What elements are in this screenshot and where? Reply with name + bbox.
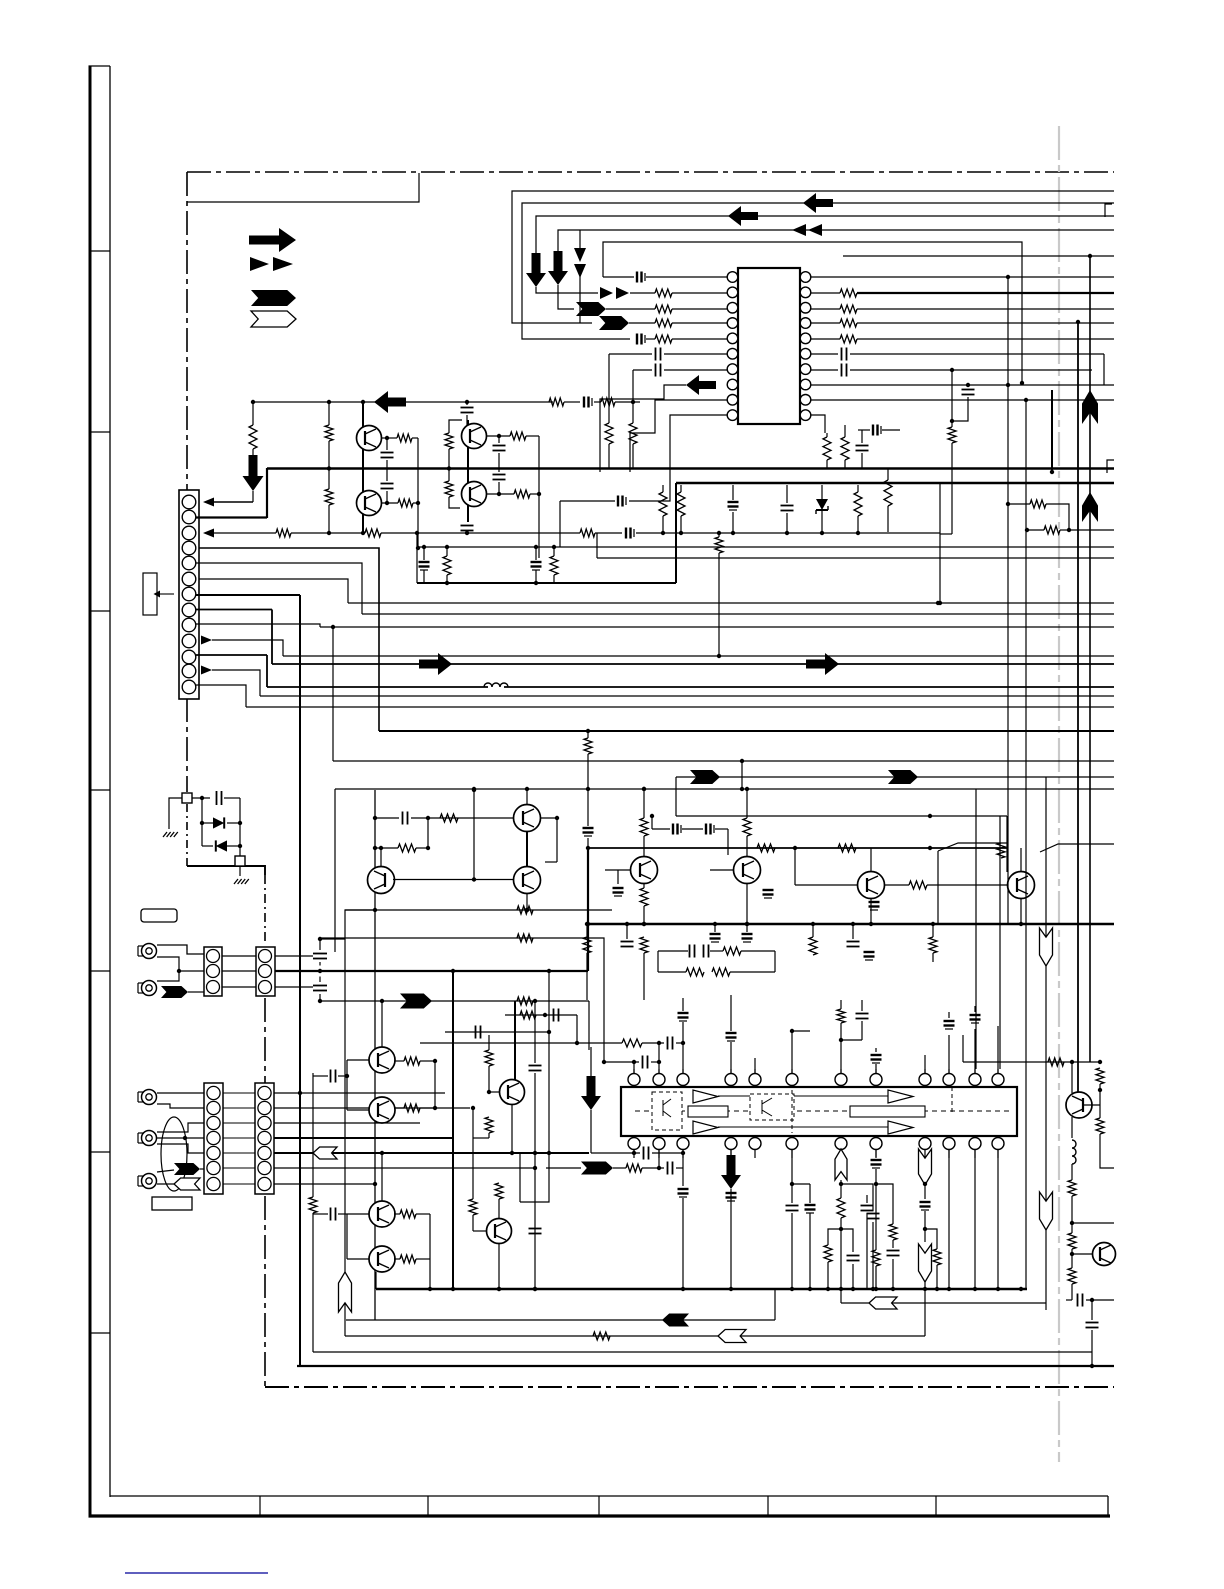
- wire U1 pin8L: [600, 385, 686, 472]
- junction bus dot: [931, 922, 935, 926]
- title strip divider 1: [259, 1496, 261, 1515]
- wire x333 jog: [332, 627, 334, 761]
- resistor R38: [583, 937, 591, 953]
- wire Q8 collector: [643, 789, 645, 818]
- arrow left on L2: [803, 193, 833, 213]
- label box pointer arrow: [160, 593, 174, 595]
- wire R9 stub: [662, 485, 664, 492]
- IC U1 left pin 4: [727, 318, 738, 329]
- signal arrow down A5: [581, 1076, 601, 1110]
- wire CN3 row3: [222, 986, 256, 988]
- junction j253: [251, 400, 255, 404]
- wire rail 1062: [604, 1061, 639, 1063]
- junction x435b: [433, 1106, 437, 1110]
- junction x1026 top: [1024, 398, 1028, 402]
- arrowhead out CN2 pin12: [201, 666, 212, 675]
- junction j449: [447, 466, 451, 470]
- junction bottom bus dot: [923, 1287, 927, 1291]
- junction j402a: [327, 400, 331, 404]
- wire R11 stub: [857, 485, 859, 492]
- wire pin7L drop: [632, 370, 634, 402]
- junction f659b: [657, 1060, 661, 1064]
- wire CN4 pin6 tail: [157, 1170, 174, 1172]
- junction j1032: [547, 1030, 551, 1034]
- wire Q11 collector: [1020, 848, 1022, 871]
- IC U1 right pin 10: [800, 410, 811, 421]
- wire Q4 base loop: [449, 497, 460, 508]
- wire x577 drop: [576, 1015, 578, 1043]
- junction jr5: [820, 531, 824, 535]
- resistor R26: [514, 490, 530, 498]
- IC U2 top pin 12: [992, 1074, 1004, 1086]
- wire x347 link2: [346, 1214, 348, 1259]
- wire chain x320: [319, 939, 321, 950]
- resistor R18: [601, 398, 615, 406]
- wire CN2 pin6: [199, 579, 348, 603]
- wire U1 pin5R a: [811, 338, 840, 340]
- wire U1 pin2R b: [857, 292, 1114, 294]
- resistor R10: [677, 492, 685, 516]
- wire A5 post: [590, 1047, 592, 1076]
- connector CN4 pin 1: [207, 1086, 220, 1099]
- connector CN2 pin 1: [182, 495, 196, 509]
- resistor R8: [840, 335, 857, 343]
- wire Q2 emitter: [381, 502, 398, 504]
- resistor R73: [517, 934, 533, 942]
- capacitor C47 polar: [970, 1014, 981, 1016]
- wire top notch: [187, 173, 419, 202]
- wire U1 pin6R: [811, 353, 838, 355]
- resistor R45: [404, 1057, 420, 1065]
- open arrow up B3: [835, 1149, 847, 1180]
- junction jc37: [345, 1074, 349, 1078]
- wire CN4-CN5 row 7: [223, 1183, 255, 1185]
- wire Q14 collector: [514, 1001, 516, 1080]
- wire x925 tap: [925, 1229, 937, 1242]
- wire CN4 pin7 tail: [157, 1183, 174, 1185]
- wire D3 leads: [202, 845, 213, 847]
- junction jr6: [856, 531, 860, 535]
- connector CN3L body: [204, 947, 222, 996]
- junction j719b: [717, 654, 721, 658]
- band wire y664: [272, 663, 1114, 665]
- junction f792: [790, 1029, 794, 1033]
- wire CN5 pin7: [274, 1183, 375, 1185]
- resistor R79: [948, 427, 956, 443]
- IC U2 internal opamp A: [693, 1090, 718, 1103]
- capacitor C12 polar: [583, 397, 585, 408]
- junction j789a: [472, 787, 476, 791]
- wire x634 drop: [633, 1149, 635, 1153]
- wire Q1 emitter: [381, 437, 397, 439]
- junction f634: [632, 1060, 636, 1064]
- IC U1 right pin 3: [800, 302, 811, 313]
- wire RC loop bottom row: [375, 847, 398, 849]
- wire C9 stub: [786, 485, 788, 503]
- band wire y731 thick: [379, 730, 1114, 732]
- junction bottom bus dot: [451, 1287, 455, 1291]
- capacitor C63: [1086, 1322, 1099, 1324]
- diode D3: [216, 840, 227, 851]
- wire x520 drop2: [519, 1153, 521, 1202]
- junction j910: [525, 908, 529, 912]
- power bus mid thick: [588, 923, 1114, 926]
- wire Q7 emitter: [526, 894, 528, 910]
- network left post: [416, 533, 418, 583]
- junction j453: [451, 969, 455, 973]
- wire C10 stub: [858, 429, 870, 431]
- wire x453 drop thick: [452, 971, 454, 1289]
- wire J3 gnd to CN4 pin2: [157, 1104, 204, 1108]
- wire bus L4: [558, 230, 1114, 251]
- wire into pin4: [629, 322, 655, 324]
- board boundary corner to chassis: [187, 866, 265, 875]
- junction bus dot: [585, 922, 589, 926]
- pentagon arrow on pin3 line: [576, 302, 606, 316]
- junction jq12c: [380, 999, 384, 1003]
- junction x1008 top2: [1006, 275, 1010, 279]
- board boundary vertical dash-dot low1: [264, 998, 266, 1086]
- wire x549 drop2: [520, 1153, 549, 1202]
- wire CN2 pin8 thick: [196, 609, 272, 611]
- capacitor C69: [313, 985, 327, 987]
- junction j1090b: [1098, 1088, 1102, 1092]
- junction j402b: [361, 400, 365, 404]
- IC U2 top pin 5: [749, 1074, 761, 1086]
- wire Q6-Q7 link: [526, 832, 528, 866]
- wire R39 stubs: [643, 953, 645, 1000]
- wire J3 to CN4 pin1: [157, 1092, 204, 1094]
- IC U2 top pin 8: [870, 1074, 882, 1086]
- wire x467 bot: [466, 533, 468, 534]
- wire CN4-CN5 row 6: [223, 1167, 255, 1169]
- wire CN2 pin3 b: [595, 532, 622, 534]
- resistor R66: [605, 423, 613, 444]
- connector CN4 body: [204, 1083, 223, 1194]
- junction bottom bus dot: [790, 1287, 794, 1291]
- resistor R32: [584, 738, 592, 754]
- vertical x1078: [1077, 322, 1079, 1092]
- junction j1012: [543, 1013, 547, 1017]
- power bus B- thick: [676, 482, 1114, 485]
- junction j1092: [1090, 1298, 1094, 1302]
- wire x775 drop: [774, 1289, 776, 1320]
- wire pin6R end: [1103, 354, 1105, 385]
- wire x272 riser: [271, 610, 273, 665]
- wire U1 pin9L: [630, 400, 727, 472]
- arrowhead into CN2 pin1: [203, 498, 214, 507]
- capacitor C33: [847, 941, 860, 943]
- resistor R22: [398, 499, 413, 507]
- wire corner x604: [598, 938, 604, 1062]
- IC U2 internal link a: [718, 1095, 750, 1097]
- left border scale tick 3: [90, 610, 110, 612]
- junction bottom bus dot: [935, 1287, 939, 1291]
- capacitor C62: [1077, 1294, 1079, 1307]
- junction bus dot: [851, 922, 855, 926]
- open arrow left y1303: [869, 1297, 897, 1309]
- connector CN5 pin 2: [258, 1101, 271, 1114]
- junction jq7: [525, 908, 529, 912]
- wire R77 mid: [892, 1240, 894, 1248]
- wire stub right top: [1105, 204, 1112, 217]
- wire R38 stubs: [586, 924, 588, 937]
- wire x335 drop: [334, 789, 336, 952]
- junction jn5: [552, 545, 556, 549]
- wire C11 stub: [861, 430, 863, 443]
- arrow left on L3: [728, 206, 758, 226]
- bottom rail y1366 thick: [297, 1365, 1114, 1367]
- wire Q9 emitter: [746, 884, 748, 924]
- wire pins to bus: [948, 1149, 950, 1289]
- IC U2 bottom pin 9: [919, 1138, 931, 1150]
- wire x683 drop: [682, 1149, 684, 1186]
- junction d1090: [1088, 254, 1092, 258]
- resistor R74: [517, 997, 533, 1005]
- wire x658 post: [657, 951, 659, 972]
- wire C31 stub: [714, 924, 716, 932]
- resistor R68: [640, 818, 648, 836]
- IC U2 internal box 1: [688, 1106, 728, 1117]
- wire rail 1015: [505, 1014, 577, 1016]
- wire y1062: [963, 1061, 1100, 1063]
- signal arrow up B2: [1082, 492, 1098, 522]
- wire Q10 emitter: [870, 899, 872, 924]
- connector CN4 pin 7: [207, 1177, 220, 1190]
- capacitor C38: [330, 1208, 332, 1221]
- vertical x1000 upper: [999, 816, 1001, 1069]
- wire R76 post: [875, 1266, 877, 1289]
- wire C8 stub: [732, 485, 734, 500]
- signal arrow up B1: [1082, 390, 1098, 424]
- junction j418: [416, 546, 420, 550]
- junction jn3: [445, 545, 449, 549]
- resistor R64: [1068, 1233, 1076, 1249]
- resistor R17: [549, 398, 564, 406]
- wire U1 pin2R a: [811, 292, 840, 294]
- junction j1062a: [1070, 1060, 1074, 1064]
- title strip divider 2: [427, 1496, 429, 1515]
- connector CN3L pin2: [207, 965, 220, 978]
- junction x430 bus: [428, 1287, 432, 1291]
- IC U2 bottom pin 11: [969, 1138, 981, 1150]
- wire C32 stub: [746, 924, 748, 932]
- wire x267 riser: [266, 468, 268, 518]
- junction bottom bus dot: [497, 1287, 501, 1291]
- wire Q18 base link: [1083, 1104, 1100, 1106]
- wire Q18 emitter: [1071, 1117, 1073, 1138]
- junction bottom bus dot: [826, 1287, 830, 1291]
- IC U2 body: [621, 1087, 1017, 1136]
- wire feed x755: [754, 1058, 756, 1073]
- transistor Q4: [462, 482, 487, 507]
- IC U2 internal opamp D: [888, 1121, 913, 1134]
- capacitor C53b: [643, 1147, 645, 1160]
- junction j1153a: [632, 1151, 636, 1155]
- wire bus L2: [522, 203, 1114, 339]
- wire y1168: [546, 1167, 581, 1169]
- capacitor C21 polar: [625, 528, 627, 539]
- ground symbol G1: [163, 832, 167, 837]
- IC U1 left pin 1: [727, 272, 738, 283]
- wire y1303: [841, 1302, 1046, 1304]
- wire rail y910: [345, 909, 612, 911]
- capacitor C56: [786, 1205, 799, 1207]
- transistor Q17: [487, 1219, 512, 1244]
- junction jn4: [534, 545, 538, 549]
- junction j387a: [385, 436, 389, 440]
- blue revision underline: [125, 1572, 268, 1574]
- connector CN5 pin 3: [258, 1116, 271, 1129]
- junction jr2: [679, 531, 683, 535]
- title strip right cap: [1107, 1496, 1109, 1515]
- wire Q16 base: [347, 1258, 369, 1260]
- wire Q12 base: [347, 1059, 369, 1061]
- signal arrow open out CN4 pin7: [174, 1178, 200, 1190]
- junction j940: [938, 601, 942, 605]
- wire x938 drop: [937, 851, 939, 924]
- junction bottom bus dot: [891, 1287, 895, 1291]
- wire C38 leads: [313, 1213, 328, 1215]
- connector CN2 pin 11: [182, 650, 196, 664]
- wire CN3 row1: [222, 955, 256, 957]
- capacitor C71: [962, 389, 975, 391]
- junction jq10: [869, 922, 873, 926]
- junction j742a: [740, 759, 744, 763]
- wire bus left end: [375, 1272, 377, 1289]
- wire Q3 base loop: [449, 420, 462, 433]
- junction j474b: [472, 877, 476, 881]
- junction j789d: [745, 787, 749, 791]
- wire feed x683: [682, 998, 684, 1011]
- wire feed x659: [658, 1043, 660, 1073]
- pentagon arrow on y1001: [400, 994, 432, 1009]
- junction j468a: [327, 466, 331, 470]
- zener diode D1: [816, 499, 828, 510]
- wire U1 pin6L: [664, 353, 727, 355]
- legend pentagon arrow open: [251, 311, 296, 327]
- junction bottom bus dot: [871, 1287, 875, 1291]
- junction jn2: [422, 545, 426, 549]
- IC U2 bottom pin 4: [725, 1138, 737, 1150]
- junction jrc4: [426, 846, 430, 850]
- IC U2 internal transistor glyph: [761, 1100, 763, 1114]
- connector CN2 pin 6: [182, 572, 196, 586]
- capacitor C5: [655, 348, 657, 361]
- transistor Q2: [357, 491, 382, 516]
- junction jq15c: [380, 1151, 384, 1155]
- junction j539: [537, 492, 541, 496]
- transistor Q19: [1093, 1243, 1116, 1266]
- wire CN2 pin7 thick: [196, 594, 300, 596]
- transistor Q15: [369, 1201, 395, 1227]
- band wire y712: [246, 706, 1114, 708]
- wire x435 link: [434, 1061, 436, 1108]
- IC U2 top pin 11: [969, 1074, 981, 1086]
- junction jr9: [1025, 528, 1029, 532]
- wire y530 right: [1069, 529, 1114, 531]
- wire R49 leads: [394, 1258, 400, 1260]
- junction j604: [602, 1060, 606, 1064]
- wire L2 out: [1071, 1164, 1073, 1180]
- board boundary vertical dash-dot low2: [264, 1196, 266, 1387]
- wire C70 post: [892, 1259, 894, 1289]
- junction j876: [874, 1182, 878, 1186]
- wire R45 leads: [394, 1060, 404, 1062]
- chassis square node 1: [182, 793, 192, 803]
- diode D2: [213, 817, 224, 828]
- wire R59 post: [936, 1242, 938, 1249]
- wire x449 mid: [448, 449, 450, 481]
- connector CN2 pin 13: [182, 680, 196, 694]
- capacitor C30: [703, 945, 705, 958]
- vertical x1090: [1089, 256, 1091, 1062]
- junction jd3: [238, 821, 242, 825]
- junction j474: [472, 788, 476, 792]
- arrowhead into CN2 pin3: [203, 529, 214, 538]
- wire to ground 1: [169, 798, 182, 829]
- IC U1 left pin 7: [727, 364, 738, 375]
- open arrow down B7: [1040, 1192, 1053, 1230]
- wire x345: [344, 939, 346, 1336]
- IC U2 internal dashed mid: [635, 1110, 1012, 1112]
- open arrow on y1336: [718, 1330, 746, 1343]
- wire Q3 emitter: [486, 435, 510, 437]
- wire R15 loop: [1008, 503, 1030, 505]
- chassis square node 2: [235, 856, 245, 866]
- capacitor C61b: [847, 1255, 860, 1257]
- capacitor C65 polar: [672, 824, 674, 835]
- IC U1 right pin 1: [800, 272, 811, 283]
- wire x588 link: [587, 789, 589, 826]
- IC U2 top pin 6: [786, 1074, 798, 1086]
- resistor R78: [715, 537, 723, 553]
- IC U2 bottom pin 2: [653, 1138, 665, 1150]
- wire U1 pin8R: [811, 384, 1114, 386]
- junction j968a: [547, 969, 551, 973]
- wire feed x634: [633, 1062, 635, 1073]
- signal arrow right under U2: [581, 1162, 613, 1175]
- connector CN5 pin 7: [258, 1177, 271, 1190]
- wire corner x345: [321, 910, 375, 939]
- resistor R7: [840, 319, 857, 327]
- IC U2 internal box 2: [850, 1106, 925, 1117]
- open arrow down B6: [1040, 928, 1053, 966]
- capacitor C29: [689, 945, 691, 958]
- network top rail: [417, 546, 1114, 548]
- capacitor C55 polar: [726, 1192, 737, 1194]
- wire x597 tie: [596, 533, 598, 558]
- junction j588b: [586, 922, 590, 926]
- IC U2 top pin 2: [653, 1074, 665, 1086]
- connector CN4 pin 2: [207, 1101, 220, 1114]
- wire CN2 pin1: [214, 501, 253, 503]
- left border scale tick 5: [90, 970, 110, 972]
- capacitor C41 polar: [678, 1012, 689, 1014]
- junction jq11: [1019, 922, 1023, 926]
- wire pin10L drop: [559, 501, 561, 547]
- wire R3 to IC1 pin2: [672, 292, 727, 294]
- wire R16 left: [1027, 529, 1044, 531]
- wire R47 post: [488, 1035, 490, 1050]
- wire x253 drop: [252, 402, 254, 425]
- legend small triangle arrow 2: [273, 257, 293, 271]
- bus B- left drop: [675, 483, 677, 547]
- junction j577: [575, 1041, 579, 1045]
- pentagon arrow on y777 b: [888, 770, 918, 784]
- wire C62 right: [1086, 1299, 1114, 1301]
- IC U2 internal link b: [718, 1126, 888, 1128]
